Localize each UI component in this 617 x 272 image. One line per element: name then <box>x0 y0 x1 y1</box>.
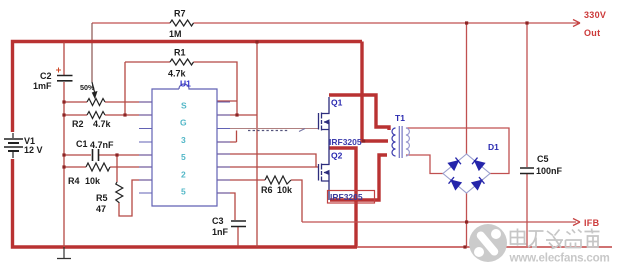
junction R1 drop R2 row <box>123 113 126 116</box>
wire C1 row <box>64 154 152 156</box>
D1 diode bottom-left <box>449 177 461 189</box>
resistor R4 <box>86 163 110 171</box>
junction R2 row left <box>62 113 65 116</box>
capacitor C2 <box>57 76 73 81</box>
svg-text:Q1: Q1 <box>331 98 343 108</box>
wire C3 to ground rail <box>237 227 239 246</box>
svg-text:R7: R7 <box>174 9 186 19</box>
wire U1 row to Q2 gate bend <box>217 154 316 167</box>
wire 330V top rail <box>92 22 577 24</box>
svg-text:S: S <box>181 101 187 111</box>
svg-text:12 V: 12 V <box>24 145 43 155</box>
junction C1 right node <box>115 153 118 156</box>
wire Q1 drain to primary top <box>329 95 389 130</box>
svg-text:www.elecfans.com: www.elecfans.com <box>509 252 610 265</box>
svg-text:D1: D1 <box>488 142 499 152</box>
wire C5 bottom <box>526 174 528 246</box>
transistor Q2 <box>319 148 330 200</box>
wire Q2 source to primary bottom <box>330 155 387 200</box>
junction R1 right node <box>235 113 238 116</box>
wire left bus x64 <box>63 42 65 247</box>
junction 330V bridge <box>465 21 468 24</box>
wire bridge top to rail <box>466 23 468 154</box>
wire U1 to C3 <box>217 193 235 220</box>
wire R6 right to IFB <box>291 180 302 222</box>
wire U1 VCC drop x257 <box>256 42 258 247</box>
D1 diamond frame <box>443 154 490 193</box>
svg-text:G: G <box>180 118 187 128</box>
svg-text:5: 5 <box>181 187 186 197</box>
svg-text:1mF: 1mF <box>33 81 52 91</box>
junction VCC top <box>255 40 258 43</box>
svg-text:47: 47 <box>96 204 106 214</box>
resistor R5 <box>116 182 123 203</box>
T1 core <box>399 126 402 158</box>
svg-text:IRF3205: IRF3205 <box>329 137 362 147</box>
wire pot wiper drop from rail <box>91 23 93 82</box>
resistor R6 <box>265 176 291 184</box>
svg-text:4.7k: 4.7k <box>168 69 187 79</box>
node IFB arrow <box>573 219 580 226</box>
D1 diode bottom-right <box>472 177 484 189</box>
junction IFB bridge <box>465 220 468 223</box>
wire C1 to R5 <box>116 155 118 182</box>
svg-text:10k: 10k <box>277 185 293 195</box>
svg-text:R6: R6 <box>261 185 273 195</box>
svg-text:1nF: 1nF <box>212 227 229 237</box>
wire U1 pin S to R1 <box>217 100 237 102</box>
wire U1 row to VCC <box>217 114 257 116</box>
junction center tap <box>362 139 365 142</box>
svg-text:R4: R4 <box>68 176 80 186</box>
svg-text:3: 3 <box>181 135 186 145</box>
wire IFB line <box>302 221 576 223</box>
junction 330V C5 <box>525 21 528 24</box>
svg-text:C5: C5 <box>537 154 549 164</box>
node dashed end tick <box>299 129 305 132</box>
wire Q2 gate row <box>217 166 319 168</box>
svg-text:Out: Out <box>584 28 600 38</box>
wire switch node to bottom rail <box>329 148 356 246</box>
resistor R1 <box>170 59 193 65</box>
svg-text:R5: R5 <box>96 193 108 203</box>
wire R4 row <box>64 166 152 168</box>
wire U1 row elbow <box>217 131 237 143</box>
wire R1 right <box>194 62 238 115</box>
svg-text:330V: 330V <box>584 10 606 20</box>
U1 pin stubs <box>139 102 230 193</box>
svg-text:C1: C1 <box>76 139 88 149</box>
svg-text:R1: R1 <box>174 48 186 58</box>
T1 secondary winding <box>406 128 410 156</box>
svg-text:5: 5 <box>181 152 186 162</box>
junction R4 row left <box>62 165 65 168</box>
capacitor C1 <box>93 149 99 161</box>
watermark chinese text <box>511 229 600 249</box>
potentiometer 50% <box>87 99 105 106</box>
wire dashed G link <box>248 130 288 132</box>
transistor Q1 <box>319 97 330 148</box>
D1 diode top-right <box>472 158 484 170</box>
power rail border (+12V thick loop) <box>13 42 363 248</box>
D1 diode top-left <box>449 158 461 170</box>
watermark logo <box>469 224 507 262</box>
svg-text:50%: 50% <box>80 83 95 92</box>
wire bridge bottom down <box>466 193 468 246</box>
junction C1 row left <box>62 153 65 156</box>
wire secondary top to bridge right <box>406 128 509 174</box>
junction ground rail <box>463 245 466 248</box>
svg-text:U1: U1 <box>180 79 191 89</box>
capacitor C3 <box>231 221 246 227</box>
svg-text:4.7nF: 4.7nF <box>90 140 114 150</box>
svg-text:C3: C3 <box>212 216 224 226</box>
wire Q1 gate solid <box>230 128 319 130</box>
svg-text:100nF: 100nF <box>536 166 563 176</box>
capacitor C5 <box>520 168 534 174</box>
svg-text:2: 2 <box>181 170 186 180</box>
wire C5 top <box>526 23 528 167</box>
resistor R7 <box>170 20 193 26</box>
C2 polarity plus <box>56 68 61 73</box>
wire pot row <box>64 101 152 103</box>
wire bottom rail right thin <box>357 246 612 248</box>
op-amp U1 box <box>152 84 217 206</box>
svg-text:10k: 10k <box>85 176 101 186</box>
svg-text:4.7k: 4.7k <box>93 119 112 129</box>
wire center-tap feed <box>362 42 388 142</box>
node 330V output arrow <box>573 20 580 27</box>
wire R1 left drop <box>125 62 170 115</box>
svg-text:C2: C2 <box>40 71 52 81</box>
svg-text:IRF3205: IRF3205 <box>330 192 363 202</box>
svg-text:1M: 1M <box>169 29 182 39</box>
svg-text:T1: T1 <box>395 113 405 123</box>
T1 primary winding <box>392 128 395 156</box>
wire secondary bottom to bridge left <box>406 155 443 174</box>
wire R2 row <box>64 114 152 116</box>
resistor R2 <box>87 112 105 119</box>
wire R5 bottom loop to U1 <box>119 180 152 216</box>
junction pot row left <box>62 100 65 103</box>
Q2 value IRF3205 selected <box>328 191 375 204</box>
ground <box>57 247 71 259</box>
svg-text:Q2: Q2 <box>331 151 343 161</box>
svg-text:IFB: IFB <box>584 218 600 228</box>
wire R6 left <box>217 179 265 181</box>
battery V1 <box>4 133 23 158</box>
svg-text:R2: R2 <box>72 119 84 129</box>
